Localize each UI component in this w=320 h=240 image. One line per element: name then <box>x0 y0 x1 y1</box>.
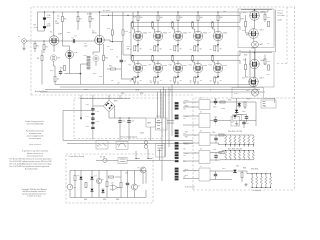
svg-text:R50-R56 270 5W: R50-R56 270 5W <box>228 131 242 133</box>
cathode resistor R61 <box>154 77 158 85</box>
svg-text:100: 100 <box>200 17 203 19</box>
svg-text:T4: T4 <box>200 149 202 151</box>
capacitor C45 <box>214 172 217 178</box>
transformer T1 <box>199 100 210 110</box>
node dot grid bus <box>132 22 133 23</box>
svg-text:R45: R45 <box>103 199 106 201</box>
node dot <box>132 78 133 79</box>
wire feedback <box>81 64 89 84</box>
svg-text:R8: R8 <box>92 19 94 21</box>
svg-text:6550: 6550 <box>143 65 147 67</box>
svg-text:D2: D2 <box>95 176 97 178</box>
grid stopper R30 <box>132 22 135 33</box>
fuse F2 <box>96 158 118 162</box>
wire V2 plate riser <box>99 12 101 35</box>
svg-text:C45: C45 <box>222 168 225 170</box>
meter board top bus <box>70 170 146 184</box>
svg-text:R13: R13 <box>107 28 110 30</box>
svg-text:V1: V1 <box>50 32 52 34</box>
node dot rail <box>44 11 45 12</box>
row4 wiring <box>210 151 226 160</box>
grid stopper R33 <box>192 22 195 33</box>
svg-text:B+: B+ <box>184 171 186 173</box>
output tube V3 top row <box>133 11 143 46</box>
transistor Q3 <box>140 167 146 173</box>
svg-text:B+ 460V: B+ 460V <box>103 10 111 12</box>
svg-text:R16: R16 <box>67 32 70 34</box>
wire coupling to output grids <box>121 42 132 79</box>
output tube V9 bottom row <box>153 60 163 84</box>
svg-text:R90: R90 <box>228 100 231 102</box>
cathode resistor R40 <box>134 46 139 52</box>
capacitor C43 <box>214 136 217 142</box>
svg-text:YEL: YEL <box>185 132 188 134</box>
svg-text:R11: R11 <box>60 68 63 70</box>
svg-text:B+: B+ <box>184 155 186 157</box>
resistor R15 <box>110 68 115 70</box>
svg-text:100: 100 <box>220 17 223 19</box>
connector plug P2 <box>144 141 148 145</box>
grid bus upper <box>131 21 240 23</box>
capacitor C1B <box>43 27 46 32</box>
cathode resistor R42 <box>174 46 179 52</box>
svg-text:DS1: DS1 <box>246 90 250 92</box>
capacitor C2 <box>59 70 62 76</box>
svg-text:R21: R21 <box>133 17 136 19</box>
wire bias feed <box>63 110 93 140</box>
svg-text:C15: C15 <box>131 121 134 123</box>
regulator box U1 <box>146 118 156 127</box>
svg-text:GND: GND <box>84 89 89 91</box>
svg-text:V5: V5 <box>169 32 171 34</box>
grid stopper R51 <box>152 55 155 64</box>
svg-text:6550: 6550 <box>163 65 167 67</box>
svg-text:6550: 6550 <box>183 33 187 35</box>
svg-text:to heaters: to heaters <box>253 189 261 192</box>
svg-text:6AS7: 6AS7 <box>261 11 265 14</box>
transformer T3 <box>199 133 210 146</box>
svg-text:to 8 ohm: to 8 ohm <box>278 14 285 17</box>
svg-text:6550: 6550 <box>163 33 167 35</box>
svg-text:0.1: 0.1 <box>75 36 78 38</box>
ground below relay <box>235 123 238 126</box>
bias board dashed border <box>74 98 162 139</box>
triode V1B <box>66 51 74 59</box>
capacitor C1A <box>43 12 46 26</box>
svg-text:C14: C14 <box>122 121 125 123</box>
svg-text:A and B models: A and B models <box>25 168 38 171</box>
capacitor C30 <box>126 181 129 187</box>
right side dashed border <box>294 7 296 190</box>
cathode resistor R60 <box>134 77 138 85</box>
relay box K1 <box>233 115 241 121</box>
grid stopper R34 <box>212 22 215 33</box>
svg-text:C16: C16 <box>266 74 269 76</box>
svg-text:V6: V6 <box>189 32 191 34</box>
svg-text:R18: R18 <box>93 73 96 75</box>
svg-text:D11: D11 <box>236 166 239 168</box>
svg-text:10: 10 <box>210 49 212 51</box>
svg-text:C13: C13 <box>96 121 99 123</box>
grid stopper R31 <box>152 22 155 33</box>
svg-text:V8: V8 <box>129 65 131 67</box>
svg-text:R44: R44 <box>84 199 87 201</box>
output tube V12 bottom row <box>213 60 223 84</box>
diode D11 <box>233 170 236 173</box>
svg-text:C31: C31 <box>125 173 128 175</box>
svg-text:5: 5 <box>195 118 196 120</box>
svg-text:V9: V9 <box>149 65 151 67</box>
svg-text:R57-R63 270 5W: R57-R63 270 5W <box>228 148 242 150</box>
node dot grid bus <box>212 22 213 23</box>
resistor bank RB1 <box>222 135 254 147</box>
transistor Q1 <box>96 178 101 183</box>
resistor bank RB3 <box>247 173 272 188</box>
svg-text:C8: C8 <box>111 80 113 82</box>
wire V1 cathode <box>53 45 55 52</box>
label wire colors <box>185 100 196 177</box>
output tube V6 top row <box>193 11 203 46</box>
svg-text:500: 500 <box>223 11 226 13</box>
svg-text:C4: C4 <box>124 61 126 63</box>
svg-text:U2: U2 <box>111 183 113 185</box>
wire regulator B+ riser <box>274 10 276 53</box>
svg-text:C12: C12 <box>86 116 89 118</box>
capacitor C15 <box>127 117 130 140</box>
bias filter chain <box>91 99 94 140</box>
scattered component labels <box>34 11 283 95</box>
row3 wiring <box>210 135 226 145</box>
output tube V4 top row <box>153 11 163 46</box>
op-amp U2 <box>110 185 120 191</box>
svg-text:16: 16 <box>150 82 152 84</box>
node dot <box>112 41 113 42</box>
regulator U3 <box>231 115 240 126</box>
resistor R13 <box>111 30 113 35</box>
resistor R7 <box>77 16 79 21</box>
grid stopper R53 <box>192 55 195 64</box>
power supply section dashed border <box>193 98 295 190</box>
svg-text:100: 100 <box>140 17 143 19</box>
svg-text:Q2: Q2 <box>138 185 140 187</box>
svg-text:YEL: YEL <box>185 137 188 139</box>
svg-text:GRN: GRN <box>185 116 190 118</box>
svg-text:R33: R33 <box>244 55 247 57</box>
wire T4 input <box>183 153 199 161</box>
svg-text:V7: V7 <box>209 32 211 34</box>
wire top rail <box>38 11 269 13</box>
wire bridge bottom <box>93 106 115 118</box>
svg-text:C42: C42 <box>246 123 249 125</box>
svg-text:R19: R19 <box>86 126 89 128</box>
screen bus lower <box>133 59 240 61</box>
switch box S1 <box>96 141 108 149</box>
triode V1 <box>49 36 59 46</box>
phase splitter cluster <box>93 56 99 67</box>
diode D3 <box>91 187 94 193</box>
terminal strip TS1 <box>175 102 179 104</box>
tube V14 <box>249 29 259 39</box>
diode D2 <box>91 175 94 181</box>
pilot lamp box <box>232 88 264 99</box>
svg-text:C10: C10 <box>86 104 89 106</box>
svg-text:10: 10 <box>190 49 192 51</box>
svg-text:6550: 6550 <box>223 65 227 67</box>
svg-text:RT1: RT1 <box>117 144 120 146</box>
resistor R92 <box>219 134 224 136</box>
capacitor C3 <box>71 39 77 42</box>
svg-text:4: 4 <box>195 135 196 137</box>
wire section vertical <box>131 12 133 60</box>
wire drops to meter chain <box>136 149 160 161</box>
input jack J1 <box>22 39 50 47</box>
svg-text:6550: 6550 <box>203 33 207 35</box>
output tube V8 bottom row <box>133 60 143 84</box>
svg-text:in whole or in part: in whole or in part <box>27 195 42 198</box>
resistor R80 <box>85 182 87 187</box>
svg-text:6550: 6550 <box>203 65 207 67</box>
svg-text:C7: C7 <box>116 57 118 59</box>
wires block2 <box>241 52 272 87</box>
svg-text:6.3V heaters: 6.3V heaters <box>185 186 195 189</box>
capacitor C40 <box>214 99 217 105</box>
node dot <box>53 11 54 12</box>
transistor Q2 <box>132 184 138 190</box>
svg-text:V4: V4 <box>149 32 151 34</box>
power meter board dashed border <box>66 154 153 203</box>
grid stopper R32 <box>172 22 175 33</box>
resistor R75 <box>245 64 247 69</box>
connector pins CN1 <box>87 56 90 69</box>
svg-text:C41: C41 <box>214 117 217 119</box>
wire V1B plate <box>63 28 70 51</box>
capacitor C44 <box>214 154 217 160</box>
svg-text:R94: R94 <box>243 168 246 170</box>
svg-text:Q1: Q1 <box>102 179 104 181</box>
bottom bus lines <box>55 84 250 86</box>
svg-text:R29: R29 <box>241 19 244 21</box>
tube V16 <box>250 59 260 69</box>
bias supply top wire <box>80 95 130 100</box>
wire input ground branch <box>41 50 43 85</box>
svg-text:U3: U3 <box>232 122 234 124</box>
wire speaker drops <box>158 87 175 123</box>
connector box P1 <box>118 157 127 163</box>
triode V2 <box>95 35 105 45</box>
row5 wiring <box>210 170 247 180</box>
svg-text:2: 2 <box>195 171 196 173</box>
svg-text:Power Supply Board: Power Supply Board <box>121 137 137 139</box>
node dot mains <box>136 158 137 159</box>
resistor R82 <box>120 182 122 187</box>
svg-text:R91: R91 <box>247 99 250 101</box>
svg-text:R4: R4 <box>37 58 39 60</box>
output tube V10 bottom row <box>173 60 183 84</box>
svg-text:B+: B+ <box>184 108 186 110</box>
svg-text:F2 1A: F2 1A <box>100 156 106 159</box>
meter M1 <box>67 184 73 197</box>
svg-text:6550: 6550 <box>223 33 227 35</box>
svg-text:R64-R68: R64-R68 <box>251 169 258 171</box>
svg-text:CN1: CN1 <box>83 55 87 57</box>
regulator block 1 box <box>238 9 274 48</box>
resistor R93 <box>219 152 224 154</box>
amplifier board dashed border <box>31 7 295 95</box>
node dot screen rail <box>108 15 109 16</box>
cathode resistor R44 <box>214 46 219 52</box>
gas regulator tube V15 <box>252 41 259 48</box>
node dot feedback <box>80 73 82 75</box>
wire lamp drop <box>236 98 238 114</box>
copyright text <box>21 188 46 198</box>
wire T2 input <box>183 116 199 125</box>
svg-text:10: 10 <box>150 49 152 51</box>
node dot <box>254 52 255 53</box>
svg-text:R7: R7 <box>80 19 82 21</box>
svg-text:0: 0 <box>210 90 211 92</box>
more psu labels <box>212 99 261 193</box>
svg-text:10: 10 <box>210 81 212 83</box>
svg-text:Power Meter Board: Power Meter Board <box>69 155 84 158</box>
svg-text:T1: T1 <box>200 98 202 100</box>
svg-text:R9: R9 <box>58 58 60 60</box>
svg-text:5687: 5687 <box>58 34 62 36</box>
cathode resistor R64 <box>214 77 218 85</box>
resistor R73 <box>264 59 266 64</box>
svg-text:V11: V11 <box>189 65 192 67</box>
wire V1 plate riser <box>53 12 55 36</box>
svg-text:10: 10 <box>170 81 172 83</box>
output tube V11 bottom row <box>193 60 203 84</box>
svg-text:V14: V14 <box>242 30 245 32</box>
svg-text:V3: V3 <box>129 32 131 34</box>
svg-text:C11: C11 <box>96 111 99 113</box>
resistor R81 <box>106 181 108 186</box>
svg-text:Sans Pareil MkII 2A3: Sans Pareil MkII 2A3 <box>27 123 44 126</box>
svg-text:6SN7: 6SN7 <box>92 33 97 35</box>
svg-text:10: 10 <box>170 49 172 51</box>
amplifier board bottom dashed border <box>31 94 193 96</box>
output tube V7 top row <box>213 11 223 46</box>
capacitor C4 <box>120 58 123 64</box>
svg-text:Amplifier Board: Amplifier Board <box>35 90 47 93</box>
svg-text:10: 10 <box>130 81 132 83</box>
wire lamp out <box>264 98 275 103</box>
wire amp-to-strip verticals <box>162 85 172 182</box>
svg-text:.047: .047 <box>84 46 88 48</box>
diode D9 <box>235 110 238 113</box>
svg-text:D1: D1 <box>77 175 79 177</box>
svg-text:see links below: see links below <box>29 138 42 140</box>
wire T1 input <box>183 102 199 107</box>
resistor R83 <box>108 176 113 178</box>
svg-text:K1: K1 <box>234 118 236 120</box>
node dot <box>254 9 255 10</box>
row1 rectifier wiring <box>210 102 256 116</box>
svg-text:C43: C43 <box>212 132 215 134</box>
ground row5 <box>244 183 247 186</box>
zener D4 <box>102 188 105 194</box>
transformer T2 <box>199 114 210 128</box>
svg-text:6SL7: 6SL7 <box>260 78 264 80</box>
resistor R4 <box>41 55 43 60</box>
resistor R94 <box>241 172 243 177</box>
svg-text:100: 100 <box>160 17 163 19</box>
svg-text:C40: C40 <box>213 107 216 109</box>
resistor R14 <box>122 30 124 35</box>
capacitor C42 <box>242 120 245 126</box>
svg-text:C40: C40 <box>214 99 217 101</box>
revision history text <box>10 158 52 171</box>
svg-text:0A2: 0A2 <box>260 43 263 46</box>
resistor R91 <box>244 102 246 107</box>
resistor R1 <box>34 43 36 48</box>
svg-text:T3: T3 <box>200 131 202 133</box>
svg-text:R73: R73 <box>267 61 270 63</box>
svg-text:R12: R12 <box>105 58 108 60</box>
cathode resistor R43 <box>194 46 199 52</box>
node dot input <box>43 40 44 41</box>
svg-text:J1: J1 <box>18 36 20 38</box>
resistor bank RB2 <box>222 150 254 160</box>
resistor R72 <box>245 21 247 26</box>
meter board bottom bus <box>70 190 146 198</box>
node dot grid bus <box>172 22 173 23</box>
bridge rectifier BR1 <box>103 100 115 112</box>
meter board wires <box>81 170 143 197</box>
row2 regulator wiring <box>210 116 256 126</box>
AC inlet box <box>156 143 165 157</box>
svg-text:(555) 555-0123: (555) 555-0123 <box>29 144 41 146</box>
svg-text:R25: R25 <box>121 93 124 95</box>
svg-text:R26: R26 <box>140 93 143 95</box>
svg-text:8: 8 <box>170 90 171 92</box>
resistor R11 <box>64 65 66 70</box>
svg-text:.22: .22 <box>117 83 120 85</box>
svg-text:R34: R34 <box>246 35 249 37</box>
svg-text:V12: V12 <box>209 65 212 67</box>
wire V1B cathode <box>65 59 81 74</box>
grid stopper R54 <box>212 55 215 64</box>
wire V2 cathode <box>93 45 100 55</box>
transformer T4 <box>199 151 210 164</box>
svg-text:S1: S1 <box>97 146 99 148</box>
resistor R10 <box>54 76 56 81</box>
resistor R6 <box>62 16 64 21</box>
svg-text:R2: R2 <box>46 47 48 49</box>
screen supply rail <box>101 14 241 16</box>
diode D1 <box>80 175 83 181</box>
wires block1 <box>241 10 272 51</box>
bus risers right <box>240 12 255 87</box>
svg-text:D10: D10 <box>242 111 245 113</box>
top B+ rail ticks <box>267 10 269 12</box>
svg-text:R1: R1 <box>37 46 39 48</box>
svg-text:4: 4 <box>190 82 191 84</box>
wire T5 input <box>183 171 199 179</box>
svg-text:www.sanspareil.com: www.sanspareil.com <box>27 156 44 158</box>
svg-text:R70: R70 <box>267 17 270 19</box>
svg-text:+: + <box>215 125 216 127</box>
svg-text:6SL7: 6SL7 <box>260 30 264 32</box>
svg-text:T2: T2 <box>200 112 202 114</box>
node bias arrow <box>80 118 82 120</box>
svg-text:C3: C3 <box>72 38 74 40</box>
capacitor C20 <box>245 115 248 121</box>
connector plug P3 <box>144 145 148 149</box>
output tube V5 top row <box>173 11 183 46</box>
resistor R2 <box>43 44 45 49</box>
